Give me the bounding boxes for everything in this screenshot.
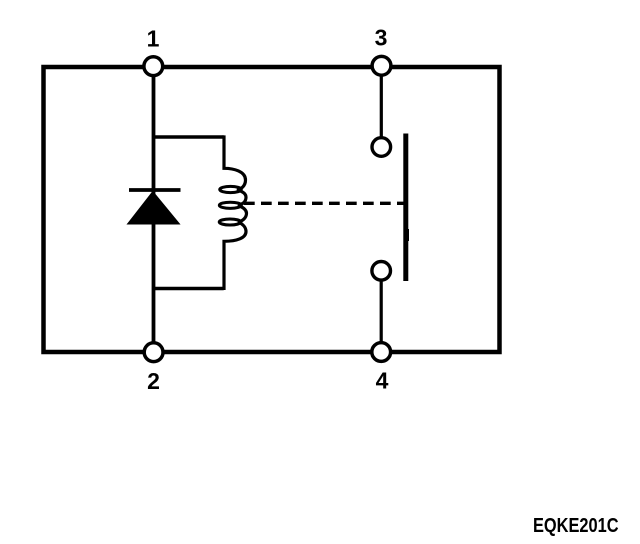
svg-text:3: 3 [375, 25, 388, 51]
svg-text:4: 4 [376, 368, 389, 394]
svg-text:2: 2 [147, 368, 160, 394]
svg-text:EQKE201C: EQKE201C [533, 513, 619, 536]
svg-text:1: 1 [147, 26, 160, 52]
